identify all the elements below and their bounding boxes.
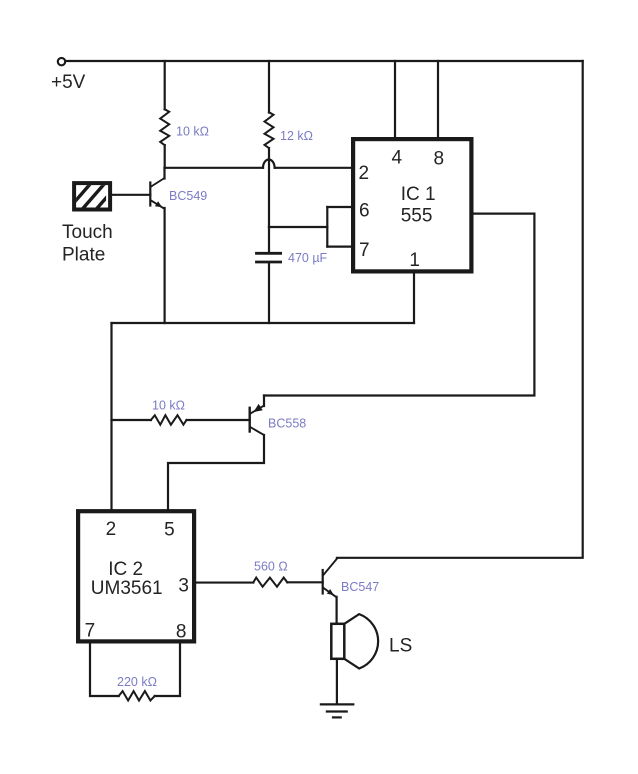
wire IC2 pin 7 down [90, 644, 119, 697]
ground [321, 704, 353, 717]
+5V terminal [51, 58, 86, 93]
wire 10k to Q2 base [187, 419, 250, 421]
wire IC1 pin 1 down [413, 274, 415, 324]
wire base branch to 10k [112, 419, 151, 421]
wire 10k bottom to node A [164, 145, 166, 168]
touch plate [62, 183, 118, 265]
svg-text:Touch: Touch [62, 222, 113, 243]
wire 560R to Q3 base [287, 581, 322, 583]
resistor R2 12 kOhm [265, 112, 313, 148]
wire IC1 pin 8 [437, 61, 439, 138]
svg-text:470 µF: 470 µF [288, 251, 328, 265]
svg-text:+5V: +5V [51, 72, 86, 93]
svg-text:5: 5 [164, 520, 175, 541]
speaker LS [331, 614, 412, 668]
wire IC1 pin 4 [394, 61, 396, 138]
wire Q3 emitter to speaker [336, 597, 338, 624]
IC U2 UM3561 [78, 511, 194, 642]
wire touch plate to Q1 base [110, 194, 150, 196]
svg-text:2: 2 [106, 519, 117, 540]
wire right vertical from rail [337, 61, 583, 558]
wire IC2 pin 3 to 560R [196, 582, 253, 584]
svg-text:10 kΩ: 10 kΩ [176, 125, 209, 139]
transistor Q1 BC549 [150, 168, 207, 209]
svg-text:8: 8 [176, 621, 187, 642]
resistor R5 220 kOhm [117, 675, 157, 701]
wire 12k branch from rail [268, 61, 270, 113]
svg-text:2: 2 [359, 163, 370, 184]
transistor Q2 BC558 [250, 396, 307, 436]
resistor R3 10 kOhm [151, 399, 187, 425]
wire IC1 pin 6/7 bracket [269, 207, 351, 247]
wire Q1 emitter down to node line [164, 208, 166, 323]
svg-text:3: 3 [178, 576, 189, 597]
svg-text:BC549: BC549 [169, 189, 207, 203]
svg-text:LS: LS [389, 636, 412, 657]
svg-text:4: 4 [392, 148, 403, 169]
svg-text:IC 2: IC 2 [108, 559, 143, 580]
wire 12k bottom through hop crossing down to cap node [268, 148, 270, 227]
wire speaker to ground [336, 659, 338, 705]
wire node A horizontal to IC1 pin 2 with hop [165, 160, 352, 168]
svg-text:IC 1: IC 1 [401, 184, 436, 205]
transistor Q3 BC547 [323, 558, 380, 596]
svg-text:UM3561: UM3561 [91, 578, 163, 599]
svg-text:220 kΩ: 220 kΩ [117, 675, 157, 689]
svg-text:BC547: BC547 [341, 580, 379, 594]
resistor R1 10 kOhm [160, 109, 209, 145]
svg-text:6: 6 [359, 200, 370, 221]
svg-text:10 kΩ: 10 kΩ [152, 399, 185, 413]
svg-text:8: 8 [434, 149, 445, 170]
resistor R4 560 Ohm [253, 559, 287, 586]
wire 220k to IC2 pin 8 [155, 644, 180, 697]
svg-text:7: 7 [85, 621, 96, 642]
wire top supply rail [66, 60, 583, 62]
IC U1 555 [353, 139, 471, 271]
svg-text:BC558: BC558 [268, 417, 306, 431]
wire left vertical to IC2 pin 2 [110, 323, 112, 509]
capacitor C1 470 uF [257, 227, 328, 323]
svg-text:555: 555 [401, 206, 433, 227]
wire 10k branch from rail [164, 61, 166, 109]
wire node line B horizontal [112, 322, 415, 324]
svg-text:12 kΩ: 12 kΩ [280, 129, 313, 143]
svg-text:560 Ω: 560 Ω [254, 559, 288, 573]
wire IC1 pin 3 to BC558 emitter [264, 214, 534, 396]
svg-text:Plate: Plate [62, 245, 105, 266]
wire Q2 collector to IC2 pin 5 [168, 435, 264, 509]
svg-text:1: 1 [409, 250, 420, 271]
svg-text:7: 7 [359, 240, 370, 261]
